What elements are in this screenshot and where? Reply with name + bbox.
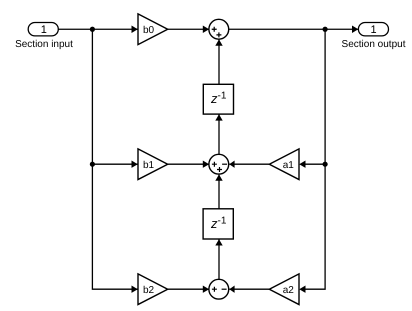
svg-text:a2: a2 [283, 285, 295, 296]
wire: a2 to bottom sum [229, 288, 269, 290]
svg-text:-1: -1 [218, 91, 227, 102]
svg-text:1: 1 [370, 24, 376, 36]
wire: input oval to b0 [58, 28, 137, 30]
wire: lower delay to middle sum [218, 175, 220, 209]
node: b1 junction [90, 162, 95, 167]
wire: b0 to top sum [168, 28, 209, 30]
wire: right vertical bus [305, 29, 325, 289]
arrowhead into lower delay (bottom) [215, 239, 222, 245]
delay Z2 (lower z^-1) [203, 209, 233, 239]
svg-text:b2: b2 [143, 285, 155, 296]
svg-text:a1: a1 [283, 160, 295, 171]
arrowhead into b0 [132, 26, 138, 33]
arrowhead into top sum (bottom) [215, 39, 222, 45]
wire: b1 feed [92, 163, 137, 165]
inport 1 Section input [15, 23, 73, 50]
outport 1 Section output [342, 23, 406, 50]
sum S3 (bottom) [209, 279, 229, 299]
wire: a1 to middle sum [229, 163, 269, 165]
arrowhead into b1 [132, 161, 138, 168]
arrowhead into a2 [299, 286, 305, 293]
node: input junction [90, 27, 95, 32]
wire: b2 to bottom sum [168, 288, 209, 290]
arrowhead into b2 [132, 286, 138, 293]
svg-text:b0: b0 [143, 25, 155, 36]
arrowhead into middle sum (left) [203, 161, 209, 168]
arrowhead into a1 [299, 161, 305, 168]
arrowhead into bottom sum (left) [203, 286, 209, 293]
svg-text:Section output: Section output [342, 39, 406, 50]
wire: top sum to output [229, 28, 359, 30]
svg-text:Section input: Section input [15, 39, 73, 50]
delay Z1 (upper z^-1) [203, 84, 233, 114]
arrowhead into upper delay (bottom) [215, 114, 222, 120]
sum S1 (top) [209, 19, 229, 39]
node: a1 junction [323, 162, 328, 167]
arrowhead into top sum (left) [203, 26, 209, 33]
arrowhead into middle sum (right) [229, 161, 234, 168]
wire: middle sum to upper delay [218, 115, 220, 155]
arrowhead into output oval [352, 26, 358, 33]
gain b1 [138, 149, 168, 180]
svg-text:b1: b1 [143, 160, 155, 171]
svg-text:1: 1 [41, 24, 47, 36]
node: output junction [323, 27, 328, 32]
wire: b1 to middle sum [168, 163, 209, 165]
sum S2 (middle) [209, 154, 229, 174]
gain a2 [269, 274, 299, 305]
wire: upper delay to top sum [218, 40, 220, 85]
gain b2 [138, 274, 168, 305]
wire: left vertical bus [92, 29, 137, 289]
arrowhead into middle sum (bottom) [215, 174, 222, 180]
gain b0 [138, 14, 168, 45]
arrowhead into bottom sum (right) [229, 286, 234, 293]
svg-text:-1: -1 [218, 215, 227, 226]
wire: bottom sum to lower delay [218, 240, 220, 280]
wire: a1 feed [305, 163, 325, 165]
gain a1 [269, 149, 299, 180]
